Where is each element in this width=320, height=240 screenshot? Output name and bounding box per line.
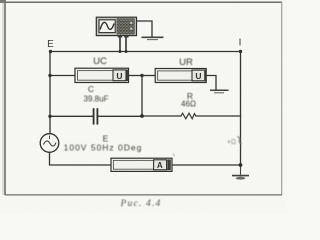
scan noise overlay [0,0,1,1]
UC left junction [48,74,51,77]
ground (UR meter) [210,90,229,93]
wire middle junction to resistor [142,115,181,117]
middle left junction [48,115,51,118]
bottom right junction [239,163,243,167]
ground (bottom right) [232,165,249,180]
page background [0,0,287,214]
wire left vertical [49,52,51,134]
middle C-R junction [140,114,144,118]
wire UC right lead to node [129,75,143,77]
stray mark above ammeter [173,154,175,157]
wire scope lead A [119,36,121,52]
wire scope lead B [125,36,127,52]
junction node dots [48,50,242,167]
voltmeter UC [75,68,129,82]
ground (scope) [142,37,164,39]
wire node to UR left lead [142,75,155,77]
wire right vertical [240,52,242,166]
UC right node junction [140,74,143,77]
capacitor C [94,108,98,124]
scope lead A junction [119,50,122,53]
wire middle branch left (to capacitor) [50,115,93,117]
scope lead B junction [125,50,128,53]
wire UC left lead [50,75,75,77]
wire scope ground lead [137,21,153,37]
node I junction [239,50,242,53]
wire UR right lead to ground [206,76,216,90]
switch/marker on right wire [227,137,242,147]
wire capacitor to middle junction [99,115,143,117]
oscilloscope XSC1 [96,17,136,37]
figure border frame [0,0,282,195]
resistor R [181,113,196,119]
ammeter A [111,158,172,171]
wire resistor to right vertical [196,115,241,117]
node E junction [49,50,52,53]
voltmeter UR [155,69,206,83]
wire source bottom to bottom bus [50,152,112,165]
wire bottom bus right of ammeter [172,164,241,166]
AC source E1 [40,134,59,153]
wire vertical junction link (UC right to middle junction) [141,76,143,117]
wire top bus E-I [51,51,241,53]
